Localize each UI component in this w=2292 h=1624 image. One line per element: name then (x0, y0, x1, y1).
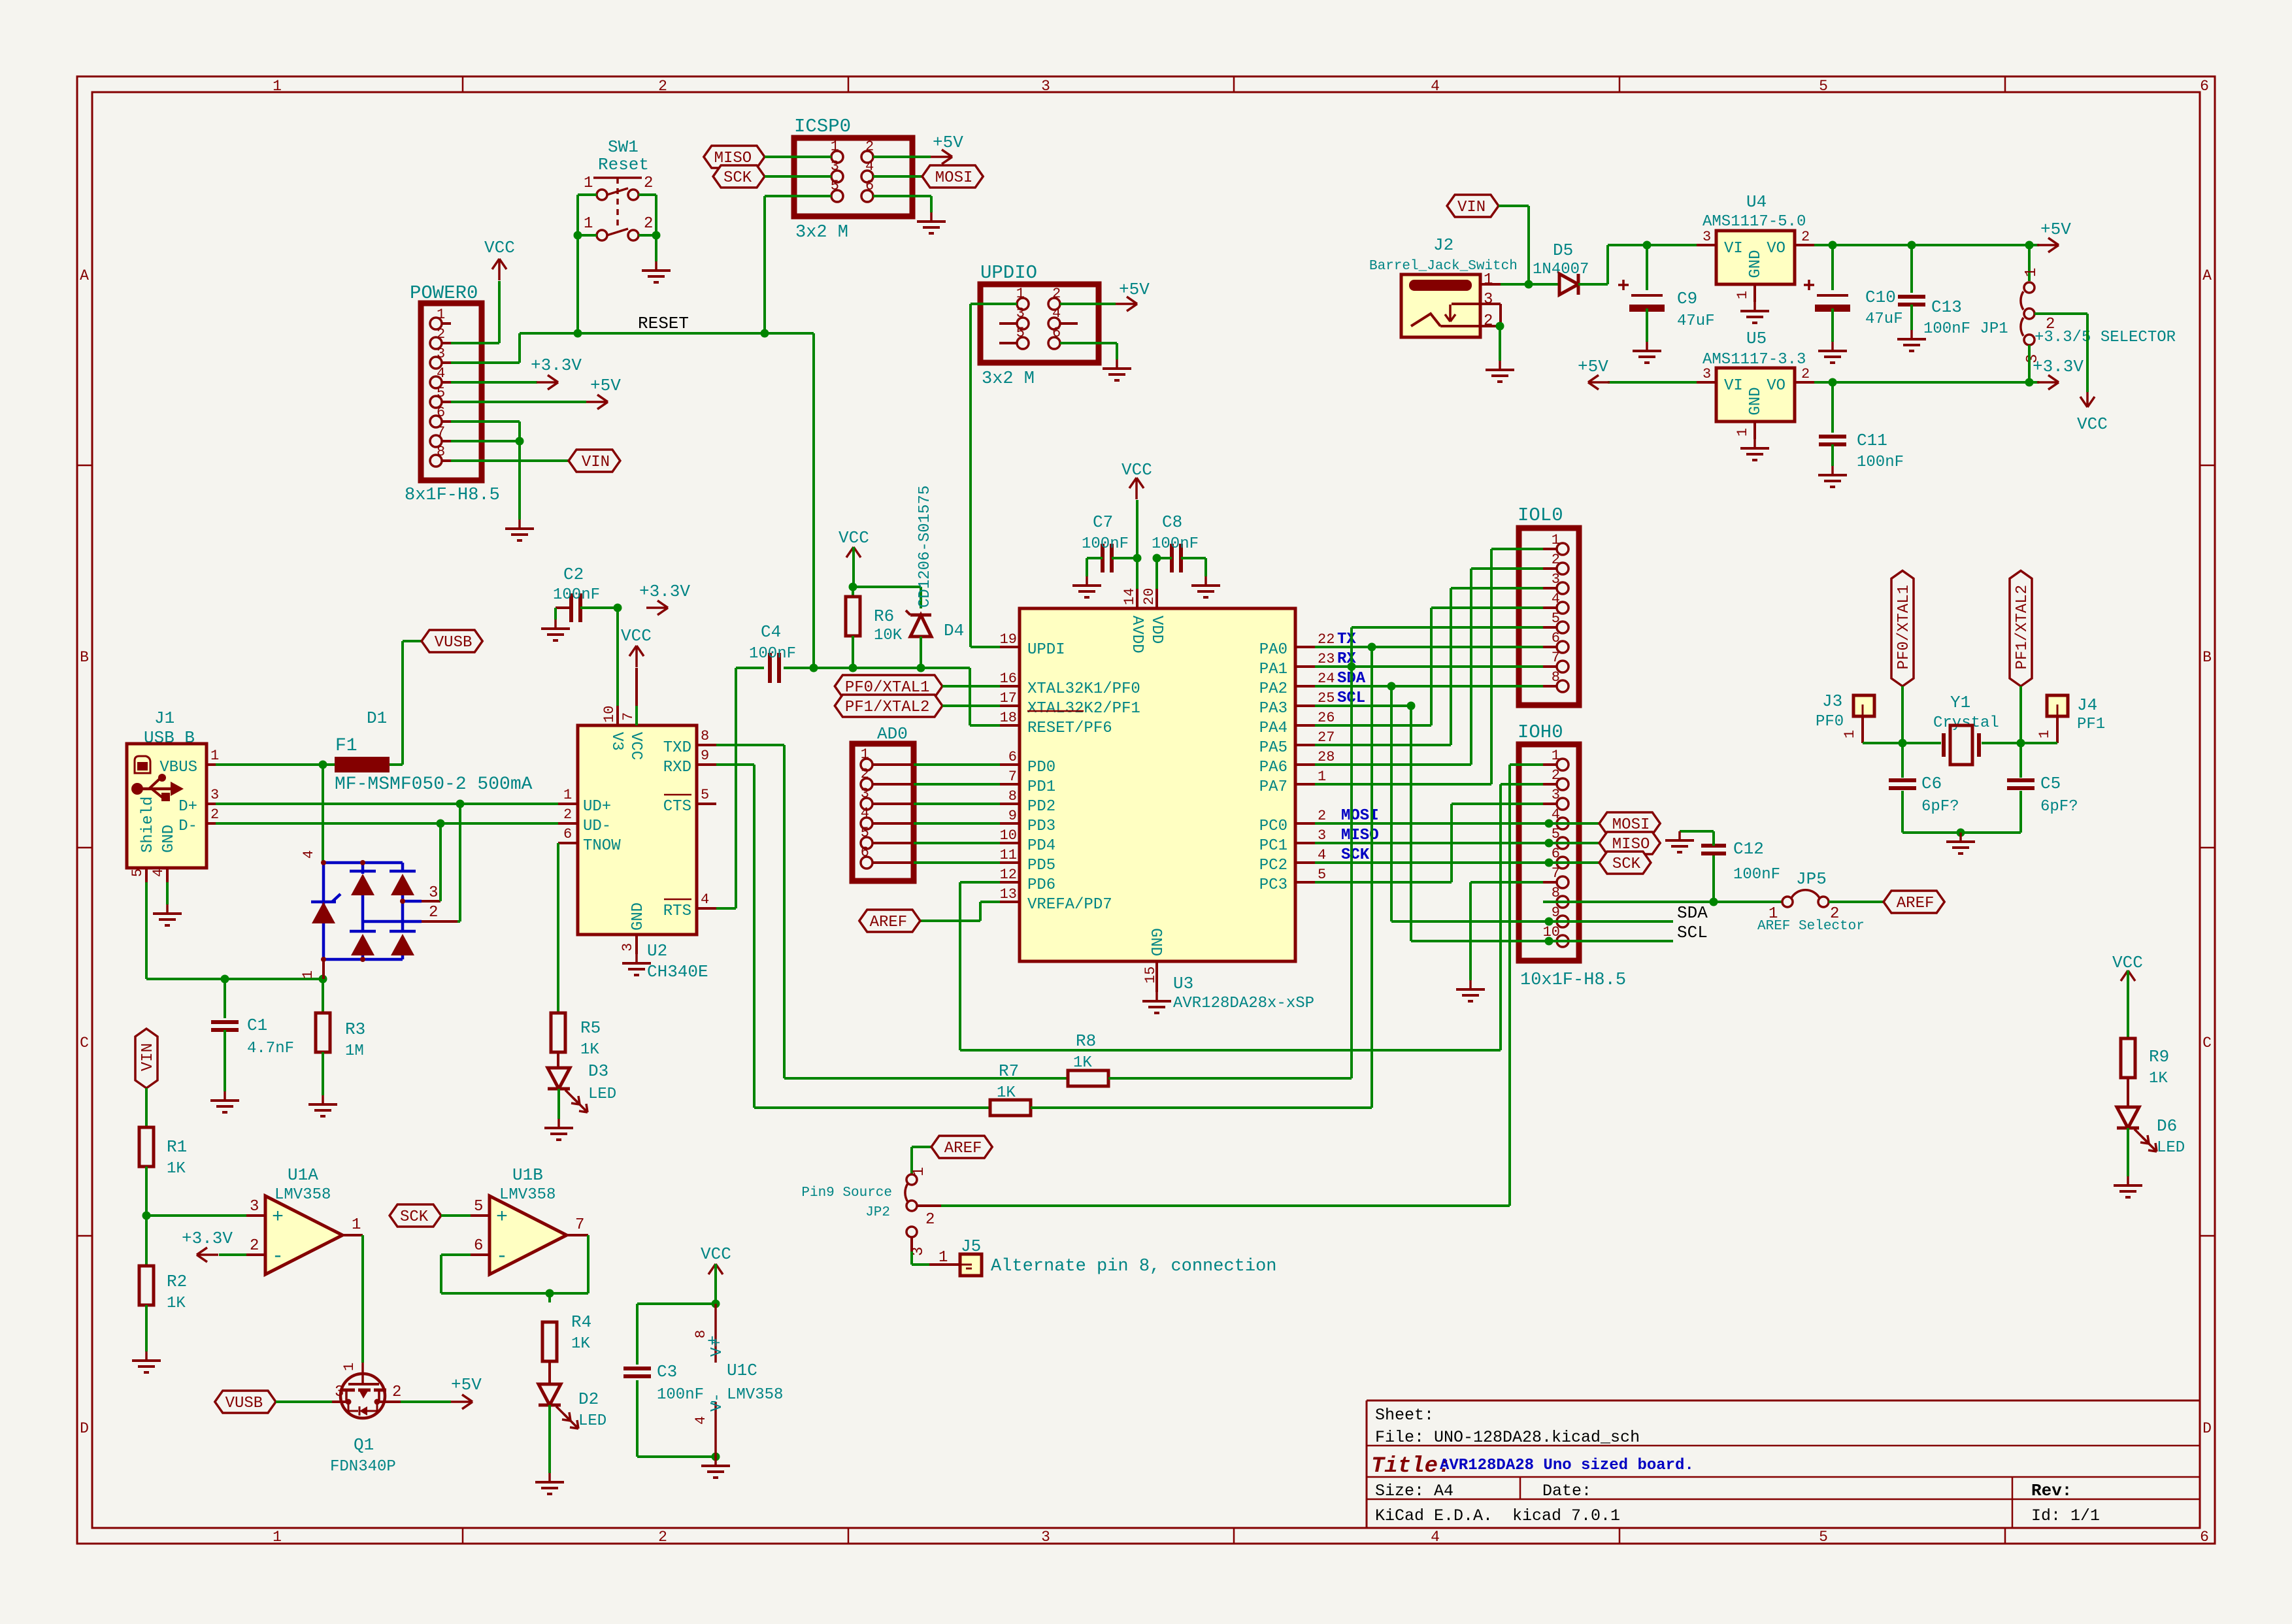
svg-text:GND: GND (629, 903, 647, 931)
svg-text:SDA: SDA (1677, 903, 1708, 923)
svg-text:6pF?: 6pF? (2040, 798, 2078, 816)
svg-text:1: 1 (1842, 730, 1858, 738)
svg-text:IOL0: IOL0 (1518, 505, 1563, 526)
svg-text:JP2: JP2 (865, 1205, 890, 1220)
svg-text:6: 6 (1052, 325, 1061, 341)
svg-text:VO: VO (1767, 240, 1785, 257)
svg-text:1: 1 (210, 748, 219, 764)
svg-text:6: 6 (1552, 630, 1560, 646)
svg-text:4: 4 (1552, 806, 1560, 823)
svg-text:6: 6 (861, 844, 869, 861)
svg-text:C4: C4 (761, 622, 781, 642)
svg-text:2: 2 (865, 139, 874, 155)
svg-text:PF0/XTAL1: PF0/XTAL1 (1895, 585, 1913, 670)
svg-text:AREF: AREF (1897, 895, 1935, 912)
svg-text:2: 2 (1318, 808, 1326, 824)
svg-text:C: C (2202, 1035, 2212, 1052)
svg-text:4: 4 (693, 1416, 709, 1425)
svg-text:2: 2 (437, 326, 445, 342)
svg-text:J2: J2 (1433, 235, 1453, 255)
svg-text:3: 3 (210, 787, 219, 803)
svg-text:GND: GND (1747, 250, 1765, 278)
svg-text:TNOW: TNOW (583, 837, 621, 855)
svg-text:PA4: PA4 (1259, 720, 1287, 737)
svg-text:Shield: Shield (139, 797, 157, 853)
svg-text:3: 3 (1702, 366, 1711, 382)
svg-text:3: 3 (861, 786, 869, 802)
svg-text:Date:: Date: (1542, 1482, 1591, 1500)
svg-text:1: 1 (1735, 428, 1751, 437)
svg-text:U2: U2 (647, 941, 667, 961)
svg-text:PA2: PA2 (1259, 680, 1287, 698)
svg-text:C12: C12 (1733, 839, 1764, 859)
svg-text:SW1: SW1 (608, 137, 639, 157)
svg-text:R8: R8 (1076, 1031, 1096, 1051)
svg-text:C3: C3 (657, 1362, 677, 1382)
svg-text:PF1/XTAL2: PF1/XTAL2 (2014, 585, 2031, 670)
svg-text:+3.3/5 SELECTOR: +3.3/5 SELECTOR (2035, 329, 2176, 346)
svg-text:10: 10 (1000, 827, 1017, 844)
svg-text:5: 5 (474, 1198, 483, 1216)
svg-text:3: 3 (1318, 827, 1326, 844)
svg-text:3: 3 (1552, 787, 1560, 803)
svg-text:LED: LED (588, 1085, 616, 1103)
svg-text:9: 9 (701, 748, 709, 764)
svg-text:C9: C9 (1677, 289, 1697, 308)
svg-text:GND: GND (1146, 928, 1164, 956)
svg-text:5: 5 (1819, 78, 1828, 95)
svg-text:6pF?: 6pF? (1921, 798, 1959, 816)
svg-text:2: 2 (210, 806, 219, 823)
svg-text:AVDD: AVDD (1128, 616, 1146, 654)
svg-text:C13: C13 (1931, 297, 1962, 317)
svg-text:7: 7 (1008, 769, 1017, 785)
svg-text:1: 1 (584, 215, 593, 233)
svg-text:PC2: PC2 (1259, 857, 1287, 874)
svg-text:F1: F1 (335, 736, 357, 756)
svg-text:1: 1 (437, 307, 445, 323)
svg-text:47uF: 47uF (1865, 310, 1903, 328)
svg-text:-: - (272, 1246, 284, 1268)
svg-text:PD5: PD5 (1027, 857, 1055, 874)
svg-text:R7: R7 (999, 1061, 1019, 1081)
svg-text:LED: LED (2157, 1139, 2185, 1157)
svg-text:1: 1 (1318, 769, 1326, 785)
svg-text:7: 7 (437, 424, 445, 440)
svg-text:PA3: PA3 (1259, 700, 1287, 718)
svg-text:PD2: PD2 (1027, 798, 1055, 816)
svg-text:XTAL32K1/PF0: XTAL32K1/PF0 (1027, 680, 1140, 698)
svg-text:6: 6 (1552, 846, 1560, 862)
svg-text:VI: VI (1724, 240, 1743, 257)
svg-text:1: 1 (2023, 268, 2040, 277)
svg-text:CD1206-S01575: CD1206-S01575 (916, 486, 934, 608)
svg-text:R4: R4 (571, 1312, 591, 1332)
svg-text:Crystal: Crystal (1933, 714, 1999, 732)
svg-text:UD+: UD+ (583, 798, 611, 816)
svg-text:GND: GND (1747, 387, 1765, 415)
svg-text:8: 8 (437, 444, 445, 460)
svg-text:PA7: PA7 (1259, 778, 1287, 796)
svg-text:20: 20 (1141, 588, 1157, 605)
svg-text:Pin9 Source: Pin9 Source (801, 1185, 892, 1201)
svg-text:+5V: +5V (2040, 220, 2071, 239)
svg-text:POWER0: POWER0 (410, 282, 478, 304)
svg-text:1: 1 (273, 1529, 282, 1546)
svg-text:3: 3 (1016, 305, 1025, 322)
svg-text:PA6: PA6 (1259, 759, 1287, 776)
svg-text:Y1: Y1 (1950, 693, 1970, 712)
svg-text:PC0: PC0 (1259, 818, 1287, 835)
svg-text:2: 2 (1552, 767, 1560, 784)
svg-text:1K: 1K (2149, 1070, 2168, 1087)
svg-text:U1A: U1A (288, 1165, 318, 1185)
svg-text:5: 5 (437, 385, 445, 401)
svg-text:1: 1 (1016, 286, 1025, 302)
svg-text:3: 3 (335, 1384, 344, 1401)
svg-text:AREF: AREF (870, 914, 908, 931)
svg-text:1: 1 (2036, 730, 2053, 738)
svg-text:13: 13 (1000, 886, 1017, 903)
svg-text:+: + (707, 1332, 718, 1351)
svg-text:3x2 M: 3x2 M (795, 223, 848, 242)
svg-text:J1: J1 (154, 708, 174, 728)
svg-text:5: 5 (831, 178, 839, 194)
svg-text:100nF: 100nF (657, 1386, 704, 1404)
svg-text:4: 4 (437, 365, 445, 382)
svg-text:+3.3V: +3.3V (531, 356, 582, 375)
svg-text:3: 3 (1702, 229, 1711, 245)
svg-text:1K: 1K (167, 1295, 186, 1312)
svg-text:100nF: 100nF (1082, 535, 1129, 553)
svg-text:R5: R5 (580, 1018, 601, 1038)
svg-text:11: 11 (1000, 847, 1017, 863)
svg-text:Barrel_Jack_Switch: Barrel_Jack_Switch (1369, 259, 1518, 274)
svg-text:U4: U4 (1746, 192, 1767, 212)
svg-text:10x1F-H8.5: 10x1F-H8.5 (1520, 970, 1626, 990)
svg-text:4: 4 (701, 891, 709, 908)
svg-text:2: 2 (1801, 229, 1810, 245)
svg-text:7: 7 (1552, 650, 1560, 666)
svg-text:3x2 M: 3x2 M (982, 369, 1035, 389)
svg-text:1K: 1K (571, 1335, 590, 1353)
svg-text:Sheet:: Sheet: (1375, 1406, 1434, 1425)
svg-text:AREF: AREF (944, 1140, 982, 1157)
svg-text:RTS: RTS (663, 903, 691, 920)
svg-text:28: 28 (1318, 749, 1335, 765)
svg-text:Id: 1/1: Id: 1/1 (2031, 1506, 2100, 1525)
svg-text:GND: GND (160, 825, 178, 853)
svg-text:VCC: VCC (2112, 953, 2143, 972)
svg-text:2: 2 (1801, 366, 1810, 382)
svg-text:1: 1 (1735, 291, 1751, 299)
svg-text:1: 1 (938, 1249, 948, 1267)
svg-text:D1: D1 (367, 708, 387, 728)
svg-text:R3: R3 (345, 1019, 365, 1039)
svg-text:SCL: SCL (1677, 923, 1708, 942)
svg-text:J4: J4 (2077, 695, 2097, 715)
svg-text:D: D (80, 1420, 89, 1437)
svg-text:LMV358: LMV358 (274, 1186, 331, 1204)
svg-text:100nF: 100nF (553, 586, 600, 604)
svg-text:2: 2 (1484, 312, 1493, 330)
svg-text:7: 7 (620, 712, 637, 721)
svg-text:D: D (2202, 1420, 2212, 1437)
svg-text:R2: R2 (167, 1272, 187, 1291)
svg-text:100nF JP1: 100nF JP1 (1923, 320, 2008, 338)
svg-text:+5V: +5V (451, 1375, 482, 1395)
svg-text:PA0: PA0 (1259, 641, 1287, 659)
svg-text:B: B (2202, 649, 2212, 666)
svg-text:+5V: +5V (590, 376, 621, 395)
svg-text:1: 1 (341, 1363, 357, 1371)
svg-text:8: 8 (1552, 885, 1560, 901)
svg-text:4: 4 (1318, 847, 1326, 863)
svg-text:1K: 1K (167, 1160, 186, 1178)
svg-text:1: 1 (910, 1167, 928, 1176)
svg-text:LMV358: LMV358 (727, 1386, 783, 1404)
svg-text:RXD: RXD (663, 759, 691, 776)
svg-text:VUSB: VUSB (225, 1395, 263, 1412)
svg-text:UPDI: UPDI (1027, 641, 1065, 659)
svg-text:J5: J5 (961, 1236, 981, 1256)
svg-text:2: 2 (1052, 286, 1061, 302)
svg-text:4.7nF: 4.7nF (247, 1040, 294, 1057)
svg-text:PA5: PA5 (1259, 739, 1287, 757)
svg-text:4: 4 (865, 158, 874, 174)
svg-text:5: 5 (1819, 1529, 1828, 1546)
svg-text:3: 3 (437, 346, 445, 362)
svg-text:2: 2 (563, 806, 572, 823)
svg-text:1: 1 (563, 787, 572, 803)
svg-text:100nF: 100nF (1152, 535, 1199, 553)
svg-text:4: 4 (1052, 305, 1061, 322)
svg-text:PC3: PC3 (1259, 876, 1287, 894)
svg-text:C: C (80, 1035, 89, 1052)
svg-text:2: 2 (861, 766, 869, 782)
svg-text:5: 5 (1552, 826, 1560, 842)
svg-text:5: 5 (1552, 610, 1560, 627)
svg-text:2: 2 (658, 78, 667, 95)
svg-text:6: 6 (865, 178, 874, 194)
svg-text:1: 1 (861, 746, 869, 763)
svg-text:PF1/XTAL2: PF1/XTAL2 (845, 699, 930, 716)
svg-text:2: 2 (1552, 552, 1560, 568)
svg-text:+: + (496, 1206, 508, 1229)
svg-text:3: 3 (1041, 1529, 1050, 1546)
svg-text:4: 4 (1431, 1529, 1440, 1546)
svg-text:AVR128DA28x-xSP: AVR128DA28x-xSP (1173, 995, 1314, 1012)
svg-text:+5V: +5V (1578, 357, 1608, 376)
svg-text:8x1F-H8.5: 8x1F-H8.5 (405, 486, 500, 505)
svg-text:25: 25 (1318, 690, 1335, 706)
svg-text:10: 10 (601, 706, 618, 723)
svg-text:3: 3 (1041, 78, 1050, 95)
svg-text:1: 1 (831, 139, 839, 155)
svg-text:3: 3 (831, 158, 839, 174)
svg-text:File: UNO-128DA28.kicad_sch: File: UNO-128DA28.kicad_sch (1375, 1428, 1640, 1447)
svg-text:26: 26 (1318, 710, 1335, 726)
svg-text:UD-: UD- (583, 818, 611, 835)
svg-text:10K: 10K (874, 627, 903, 644)
svg-text:C2: C2 (563, 565, 584, 584)
svg-text:VCC: VCC (627, 732, 644, 760)
svg-text:FDN340P: FDN340P (330, 1458, 396, 1476)
svg-text:V3: V3 (608, 732, 625, 751)
svg-text:UPDIO: UPDIO (980, 262, 1037, 284)
svg-text:VI: VI (1724, 377, 1743, 395)
svg-text:7: 7 (1552, 865, 1560, 882)
svg-text:PA1: PA1 (1259, 661, 1287, 678)
svg-text:1: 1 (1552, 532, 1560, 548)
svg-text:PD4: PD4 (1027, 837, 1055, 855)
svg-text:Reset: Reset (598, 155, 649, 174)
svg-text:VREFA/PD7: VREFA/PD7 (1027, 896, 1112, 914)
svg-text:3: 3 (1552, 571, 1560, 588)
svg-text:C10: C10 (1865, 288, 1896, 307)
svg-text:Size: A4: Size: A4 (1375, 1482, 1453, 1500)
svg-text:2: 2 (644, 215, 653, 233)
svg-text:D4: D4 (944, 621, 964, 640)
svg-text:IOH0: IOH0 (1518, 721, 1563, 743)
svg-text:47uF: 47uF (1677, 312, 1715, 330)
svg-text:AMS1117-5.0: AMS1117-5.0 (1702, 213, 1806, 231)
svg-text:1: 1 (352, 1216, 361, 1234)
svg-text:2: 2 (925, 1211, 935, 1229)
svg-text:9: 9 (1008, 808, 1017, 824)
svg-text:+3.3V: +3.3V (2033, 357, 2084, 376)
svg-text:+5V: +5V (933, 133, 963, 152)
svg-text:6: 6 (474, 1237, 483, 1255)
svg-text:5: 5 (1016, 325, 1025, 341)
svg-text:2: 2 (250, 1237, 259, 1255)
svg-text:SCK: SCK (1612, 855, 1641, 873)
svg-text:CH340E: CH340E (647, 962, 708, 982)
svg-text:VCC: VCC (701, 1244, 731, 1264)
svg-text:8: 8 (1008, 788, 1017, 804)
svg-text:-: - (708, 1392, 719, 1412)
svg-text:5: 5 (129, 869, 146, 877)
svg-text:VIN: VIN (582, 454, 610, 471)
svg-text:R1: R1 (167, 1137, 187, 1157)
svg-text:+5V: +5V (1119, 280, 1150, 299)
svg-text:1K: 1K (1073, 1054, 1092, 1072)
svg-text:VCC: VCC (2077, 414, 2108, 434)
svg-text:1K: 1K (580, 1041, 599, 1059)
svg-text:LMV358: LMV358 (499, 1186, 556, 1204)
svg-text:3: 3 (250, 1198, 259, 1216)
svg-text:27: 27 (1318, 729, 1335, 746)
svg-text:C5: C5 (2040, 774, 2061, 793)
svg-text:Rev:: Rev: (2031, 1481, 2072, 1500)
svg-text:VCC: VCC (1121, 460, 1152, 480)
svg-text:1: 1 (1484, 271, 1493, 289)
svg-text:ICSP0: ICSP0 (794, 116, 851, 137)
svg-text:100nF: 100nF (1857, 454, 1904, 471)
svg-text:KiCad E.D.A. kicad 7.0.1: KiCad E.D.A. kicad 7.0.1 (1375, 1506, 1620, 1525)
svg-text:100nF: 100nF (1733, 866, 1780, 884)
svg-text:Q1: Q1 (354, 1435, 374, 1455)
svg-text:PD3: PD3 (1027, 818, 1055, 835)
svg-text:CTS: CTS (663, 798, 691, 816)
svg-text:PF0: PF0 (1816, 713, 1844, 731)
svg-text:XTAL32K2/PF1: XTAL32K2/PF1 (1027, 700, 1140, 718)
svg-text:VIN: VIN (1457, 199, 1486, 216)
svg-text:24: 24 (1318, 671, 1335, 687)
svg-text:D2: D2 (578, 1389, 599, 1409)
svg-text:6: 6 (2200, 78, 2209, 95)
svg-text:D-: D- (178, 818, 197, 835)
svg-text:RESET/PF6: RESET/PF6 (1027, 720, 1112, 737)
svg-text:R6: R6 (874, 606, 894, 626)
svg-text:5: 5 (861, 825, 869, 841)
svg-text:1M: 1M (345, 1042, 364, 1060)
svg-text:18: 18 (1000, 710, 1017, 726)
svg-text:J3: J3 (1822, 691, 1842, 711)
svg-text:VCC: VCC (621, 626, 652, 646)
svg-text:VBUS: VBUS (159, 759, 197, 776)
svg-text:D3: D3 (588, 1061, 608, 1081)
svg-text:VUSB: VUSB (435, 634, 473, 652)
svg-text:3: 3 (620, 943, 636, 952)
svg-text:VCC: VCC (484, 238, 515, 257)
svg-text:C11: C11 (1857, 431, 1887, 450)
svg-text:6: 6 (2200, 1529, 2209, 1546)
svg-text:1: 1 (584, 174, 593, 192)
svg-text:1: 1 (273, 78, 282, 95)
svg-text:VO: VO (1767, 377, 1785, 395)
svg-text:6: 6 (563, 826, 572, 842)
svg-text:C8: C8 (1162, 512, 1182, 532)
svg-text:19: 19 (1000, 631, 1017, 648)
svg-text:2: 2 (658, 1529, 667, 1546)
svg-text:D+: D+ (178, 798, 197, 816)
svg-text:D6: D6 (2157, 1116, 2177, 1136)
svg-text:C1: C1 (247, 1016, 267, 1035)
svg-text:RESET: RESET (638, 314, 689, 333)
svg-text:B: B (80, 649, 89, 666)
svg-text:AD0: AD0 (877, 724, 908, 744)
svg-text:U1C: U1C (727, 1361, 757, 1380)
svg-text:JP5: JP5 (1796, 869, 1827, 889)
svg-text:C6: C6 (1921, 774, 1942, 793)
svg-text:7: 7 (575, 1216, 584, 1234)
svg-text:3: 3 (1484, 291, 1493, 308)
svg-text:A: A (80, 267, 89, 284)
svg-text:5: 5 (1318, 867, 1326, 883)
svg-text:3: 3 (429, 884, 438, 902)
svg-text:PD1: PD1 (1027, 778, 1055, 796)
svg-text:U3: U3 (1173, 974, 1193, 993)
svg-text:16: 16 (1000, 671, 1017, 687)
svg-text:MF-MSMF050-2 500mA: MF-MSMF050-2 500mA (335, 774, 533, 795)
svg-text:2: 2 (644, 174, 653, 192)
svg-text:TX: TX (1337, 631, 1356, 648)
svg-text:-: - (496, 1246, 508, 1268)
svg-text:9: 9 (1552, 904, 1560, 921)
svg-text:15: 15 (1142, 967, 1159, 984)
svg-text:14: 14 (1121, 588, 1138, 605)
svg-text:4: 4 (1431, 78, 1440, 95)
svg-text:1: 1 (1552, 748, 1560, 764)
svg-text:PD0: PD0 (1027, 759, 1055, 776)
svg-text:PF1: PF1 (2077, 716, 2105, 733)
svg-text:AREF Selector: AREF Selector (1757, 919, 1865, 934)
svg-text:22: 22 (1318, 631, 1335, 648)
svg-text:6: 6 (437, 405, 445, 421)
svg-text:8: 8 (701, 728, 709, 744)
svg-text:LED: LED (578, 1412, 606, 1430)
